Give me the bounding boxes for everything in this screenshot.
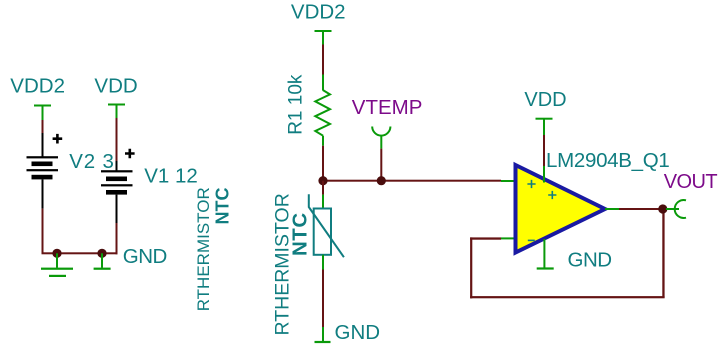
svg-text:NTC: NTC [213, 188, 233, 225]
svg-text:V2 3: V2 3 [69, 150, 114, 173]
svg-text:VDD2: VDD2 [10, 74, 65, 97]
svg-text:LM2904B_Q1: LM2904B_Q1 [546, 149, 670, 172]
svg-text:GND: GND [123, 245, 167, 268]
svg-text:GND: GND [335, 321, 381, 344]
svg-text:NTC: NTC [289, 212, 312, 256]
svg-text:VTEMP: VTEMP [352, 96, 423, 119]
svg-text:R1 10k: R1 10k [286, 74, 307, 135]
svg-text:VDD: VDD [94, 74, 137, 97]
svg-text:VOUT: VOUT [664, 171, 718, 193]
svg-text:V1 12: V1 12 [144, 165, 198, 188]
svg-text:RTHERMISTOR: RTHERMISTOR [194, 187, 213, 311]
svg-text:GND: GND [568, 249, 612, 272]
svg-text:VDD2: VDD2 [291, 1, 346, 24]
svg-text:VDD: VDD [524, 89, 566, 111]
